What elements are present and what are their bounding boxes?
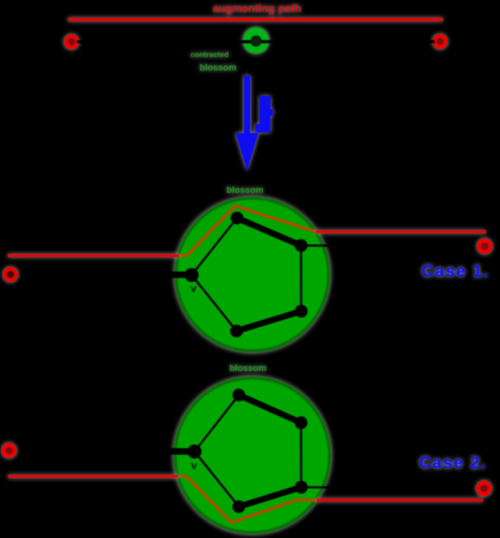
augmenting path left segment, case 2 — [8, 475, 178, 478]
svg-text:augmenting path: augmenting path — [213, 3, 302, 15]
blossom cycle node lower-right, case 2 — [295, 481, 308, 494]
contracted blossom node dark centre — [250, 35, 261, 46]
blossom cycle node top, case 2 — [232, 389, 245, 402]
node: right exposed vertex, case 2 — [478, 483, 490, 495]
augmenting path right segment, case 1 — [316, 230, 487, 233]
blossom cycle node bottom, case 1 — [230, 325, 243, 338]
wire: stem edge entering v, case 1 — [16, 271, 192, 278]
wire: matched thick edge top to upper-right, case 1 — [237, 218, 301, 246]
wire: cycle thin edge v to top, case 2 — [195, 395, 239, 452]
svg-text:blossom: blossom — [229, 363, 266, 373]
node: left exposed vertex, case 1 — [5, 269, 16, 280]
wire: exit edge upper-right vertex to right node, case 1 — [301, 244, 480, 247]
blossom circle, case 1 — [176, 198, 329, 351]
svg-text:blossom: blossom — [226, 185, 263, 195]
blossom cycle node upper-right, case 1 — [295, 239, 308, 252]
svg-text:contracted: contracted — [190, 50, 229, 59]
wire: stem edge entering v, case 2 — [15, 451, 194, 452]
blossom cycle node v, case 2 — [188, 445, 202, 459]
svg-text:v: v — [190, 283, 197, 295]
wire: cycle thin edge bottom to v, case 1 — [192, 275, 237, 331]
svg-text:blossom: blossom — [199, 63, 236, 73]
wire: matched thick edge lower-right to bottom, case 2 — [239, 487, 301, 506]
wire: cycle thin edge upper-right to lower-right, case 1 — [300, 246, 302, 312]
wire: cycle thin edge upper-right to lower-right, case 2 — [300, 423, 302, 488]
wire: cycle thin edge bottom to v, case 2 — [195, 452, 239, 507]
arrow (blue, expand downward) — [235, 76, 258, 172]
wire: exit edge lower-right vertex to right node, case 2 — [301, 487, 479, 488]
wire: matched thick edge lower-right to bottom, case 1 — [237, 311, 302, 331]
augmenting path inside blossom, case 2 (darker red over green) — [178, 476, 319, 522]
svg-text:v: v — [191, 460, 198, 472]
blossom cycle node upper-right, case 2 — [295, 416, 308, 429]
blossom cycle node top, case 1 — [231, 212, 244, 225]
node B (right exposed vertex, top) — [434, 36, 445, 47]
node: left exposed vertex, case 2 — [3, 445, 14, 456]
wire: matched thick edge top to upper-right, case 2 — [239, 395, 301, 423]
blossom cycle node v, case 1 — [185, 268, 199, 282]
augmenting path left segment, case 1 — [8, 254, 179, 257]
contracted blossom node (green ring) — [243, 27, 269, 53]
blossom cycle node bottom, case 2 — [232, 500, 245, 513]
blue glyph beside arrow — [256, 96, 274, 133]
augmenting path inside blossom, case 1 (darker red over green) — [179, 206, 317, 256]
wire: cycle thin edge v to top, case 1 — [192, 218, 237, 275]
wire: top edge across (black, over nodes and green disc) — [77, 40, 435, 43]
svg-text:Case 1.: Case 1. — [422, 263, 490, 281]
augmenting path line (top) — [68, 18, 443, 21]
node A (left exposed vertex, top) — [66, 36, 77, 47]
svg-text:Case 2.: Case 2. — [419, 454, 487, 472]
blossom cycle node lower-right, case 1 — [295, 305, 308, 318]
blossom circle, case 2 — [175, 378, 330, 533]
node: right exposed vertex, case 1 — [479, 241, 491, 253]
wire: edge from node A through blossom node to node B (visible notches) — [243, 27, 269, 53]
augmenting path right segment, case 2 — [317, 499, 483, 502]
